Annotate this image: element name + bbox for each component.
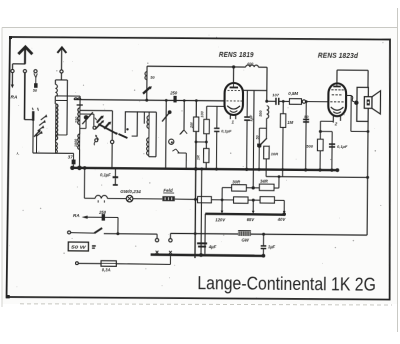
svg-text:RA: RA <box>10 95 18 101</box>
svg-text:0,1µF: 0,1µF <box>221 128 232 133</box>
svg-text:0,1µF: 0,1µF <box>337 144 348 149</box>
svg-text:1M: 1M <box>287 120 293 125</box>
svg-text:100: 100 <box>200 110 204 117</box>
svg-text:RENS 1823d: RENS 1823d <box>318 51 359 60</box>
svg-text:GW/0,234: GW/0,234 <box>120 189 141 194</box>
svg-text:0,1µF: 0,1µF <box>100 172 111 177</box>
svg-text:0,3A: 0,3A <box>102 267 111 272</box>
svg-text:2M: 2M <box>189 122 194 129</box>
svg-text:40V: 40V <box>277 217 287 222</box>
svg-text:1µF: 1µF <box>248 114 253 121</box>
svg-text:65V: 65V <box>247 217 256 222</box>
svg-text:250: 250 <box>169 91 178 96</box>
svg-text:λ,: λ, <box>15 151 19 156</box>
svg-text:107: 107 <box>272 92 279 97</box>
svg-text:1µF: 1µF <box>268 244 276 249</box>
svg-text:GW: GW <box>241 237 249 242</box>
svg-text:600: 600 <box>247 62 253 66</box>
svg-text:500: 500 <box>306 143 313 148</box>
svg-text:50 W: 50 W <box>71 245 86 250</box>
svg-text:0,5M: 0,5M <box>288 91 298 96</box>
svg-text:250: 250 <box>98 210 107 215</box>
svg-text:1R: 1R <box>197 155 201 160</box>
svg-text:120V: 120V <box>215 217 226 222</box>
svg-text:RENS 1819: RENS 1819 <box>219 50 254 59</box>
svg-text:Lange-Continental 1K 2G: Lange-Continental 1K 2G <box>197 272 376 295</box>
svg-text:34R: 34R <box>260 179 269 184</box>
svg-text:Feld: Feld <box>163 188 173 193</box>
svg-text:10R: 10R <box>271 151 278 156</box>
svg-text:500: 500 <box>259 110 263 117</box>
svg-text:37: 37 <box>68 154 73 159</box>
svg-text:RA: RA <box>73 213 80 218</box>
svg-text:2: 2 <box>334 121 338 126</box>
svg-text:4µF: 4µF <box>208 244 217 249</box>
svg-text:30R: 30R <box>232 179 241 184</box>
